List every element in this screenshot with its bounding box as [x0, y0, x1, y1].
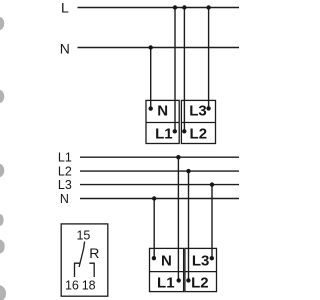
terminal block top: right half — [181, 100, 215, 143]
svg-text:L3: L3 — [189, 102, 207, 119]
svg-text:L3: L3 — [58, 178, 72, 192]
wire L3 bus (bottom) — [80, 184, 239, 186]
svg-text:R: R — [89, 245, 99, 261]
svg-text:18: 18 — [82, 279, 96, 293]
wire L2 bus (bottom) — [80, 170, 239, 172]
node L3 junction (bottom) — [210, 182, 214, 186]
node N junction (top) — [149, 45, 153, 49]
node L/L1-drop junction — [173, 5, 177, 9]
svg-text:L2: L2 — [190, 126, 208, 143]
relay contact R: fixed contact 16 — [75, 263, 80, 277]
wire N bus (top) — [78, 47, 240, 49]
terminal dot L2 (top box) — [182, 129, 186, 133]
terminal dot L1 (bottom box) — [177, 278, 181, 282]
svg-text:N: N — [161, 253, 172, 270]
wire N drop to terminal N (bottom box) — [153, 199, 155, 259]
terminal dot L3 (top box) — [206, 106, 210, 110]
terminal dot N (top box) — [149, 106, 153, 110]
relay contact R: moving blade — [79, 249, 84, 268]
terminal block bottom: left half — [150, 248, 184, 291]
svg-text:L2: L2 — [191, 275, 209, 292]
node junction dots on buses — [149, 5, 215, 282]
wire L1 drop to terminal L1 (bottom box) — [177, 157, 179, 280]
terminal block top: left half — [146, 100, 217, 291]
terminal block bottom: right half — [185, 248, 217, 291]
svg-text:L1: L1 — [157, 275, 175, 292]
svg-text:N: N — [60, 41, 70, 57]
node L2 junction (bottom) — [186, 169, 190, 173]
terminal dot L2 (bottom box) — [186, 278, 190, 282]
svg-text:L2: L2 — [58, 164, 72, 178]
node L/L3-drop junction — [206, 5, 210, 9]
wire L2 drop to terminal L2 (bottom box) — [188, 171, 190, 280]
svg-text:16: 16 — [65, 279, 79, 293]
svg-text:L3: L3 — [192, 253, 210, 270]
wire L drop to terminal L1 (top box) — [174, 8, 176, 132]
decorative scan binding marks (left edge) — [0, 17, 6, 300]
svg-text:L: L — [61, 0, 69, 16]
wire N bus (bottom) — [80, 198, 239, 200]
relay contact R: fixed contact 18 — [89, 263, 94, 277]
wire N drop to terminal N (top box) — [150, 48, 152, 109]
svg-text:L1: L1 — [58, 150, 72, 164]
terminal dot N (bottom box) — [152, 256, 156, 260]
wire L drop to terminal L3 (top box) — [208, 8, 210, 109]
node L/L2-drop junction — [182, 5, 186, 9]
svg-text:15: 15 — [76, 228, 90, 242]
relay contact R: enclosure box — [61, 224, 108, 296]
wire L bus (top) — [78, 7, 240, 9]
wire L1 bus (bottom) — [80, 156, 239, 158]
relay contact R: stem from terminal 15 — [84, 242, 85, 249]
terminal dot L1 (top box) — [173, 129, 177, 133]
svg-text:N: N — [60, 192, 69, 206]
wire L3 drop to terminal L3 (bottom box) — [211, 185, 213, 259]
terminal dot L3 (bottom box) — [210, 256, 214, 260]
node N junction (bottom) — [152, 196, 156, 200]
svg-text:L1: L1 — [155, 126, 173, 143]
svg-text:N: N — [157, 102, 168, 119]
node L1 junction (bottom) — [176, 155, 180, 159]
wire L drop to terminal L2 (top box) — [183, 8, 185, 132]
